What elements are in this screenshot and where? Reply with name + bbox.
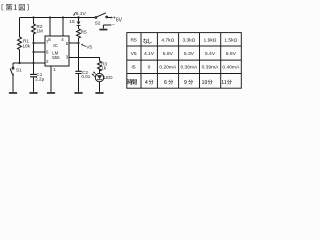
svg-text:R5: R5	[130, 37, 137, 43]
resistor R2	[32, 24, 36, 34]
table cell 11min	[222, 80, 224, 84]
wire pin8	[49, 18, 51, 37]
svg-text:5.3V: 5.3V	[184, 51, 195, 57]
ground battery	[99, 29, 107, 31]
ground LED	[95, 92, 103, 94]
svg-text:0.39mA: 0.39mA	[202, 64, 220, 70]
svg-text:IC: IC	[53, 43, 58, 49]
svg-text:5.5V: 5.5V	[226, 51, 237, 57]
IC U1 (LM555 timer)	[45, 36, 69, 66]
svg-text:4.1V: 4.1V	[144, 51, 155, 57]
wire C1 branch	[33, 63, 35, 92]
svg-text:0: 0	[148, 64, 151, 70]
node dot V5	[77, 42, 79, 44]
wire pin3 to R3	[69, 58, 100, 62]
switch S2	[95, 17, 97, 19]
table cell jikan	[127, 79, 133, 85]
LED triangle and bar	[97, 75, 102, 80]
capacitor C2	[75, 71, 81, 73]
wire pin1 to ground	[50, 66, 52, 92]
svg-text:555: 555	[52, 55, 60, 60]
wire pin5	[69, 42, 79, 44]
wire left vertical R1 branch	[19, 18, 21, 64]
svg-text:1.5kΩ: 1.5kΩ	[224, 37, 237, 43]
svg-text:5.4V: 5.4V	[205, 51, 216, 57]
svg-text:6V: 6V	[116, 18, 123, 24]
wire R2 vertical	[33, 18, 35, 64]
wire pin4	[62, 18, 64, 37]
table grid	[127, 33, 242, 89]
ground pin1	[47, 92, 55, 94]
resistor R5	[77, 29, 81, 38]
svg-text:V5: V5	[86, 44, 92, 49]
arrow 6.1V leader	[73, 12, 76, 16]
svg-text:6.1V: 6.1V	[76, 11, 87, 17]
wire battery minus	[103, 25, 111, 29]
svg-text:S1: S1	[16, 67, 22, 72]
resistor R3	[98, 61, 102, 71]
node dot pin6	[32, 51, 34, 53]
svg-text:R5: R5	[81, 30, 87, 35]
svg-text:LED: LED	[104, 75, 114, 80]
wire bottom (pin2)	[13, 62, 45, 64]
svg-text:V5: V5	[131, 51, 137, 57]
svg-text:5.8V: 5.8V	[163, 51, 174, 57]
node dot top pin4	[62, 16, 64, 18]
node dot 6.1V	[77, 16, 79, 18]
node dot R1 bottom	[18, 62, 20, 64]
wire LED to ground	[99, 82, 101, 92]
wire right branch 6.1V node	[78, 18, 80, 72]
table text	[130, 37, 239, 70]
label figure title	[2, 4, 29, 11]
table cell 9min	[184, 80, 186, 84]
svg-text:3.3kΩ: 3.3kΩ	[182, 37, 195, 43]
wire pin6	[34, 51, 46, 53]
node dot C1 top	[32, 62, 34, 64]
arrow battery plus	[111, 17, 114, 19]
resistor R1	[18, 37, 22, 50]
wire C2 to ground	[78, 74, 80, 92]
LED light arrows	[92, 72, 97, 77]
svg-text:1M: 1M	[37, 29, 44, 34]
diode 1S	[77, 22, 81, 26]
svg-text:I5: I5	[132, 64, 136, 70]
svg-text:2.2µ: 2.2µ	[35, 77, 44, 82]
svg-text:0.01: 0.01	[81, 74, 90, 79]
svg-text:4.7kΩ: 4.7kΩ	[161, 37, 174, 43]
capacitor C1	[30, 74, 37, 76]
node dot top R2	[32, 16, 34, 18]
switch S1 lower contact	[12, 74, 14, 76]
ground C1	[29, 92, 37, 94]
arrow V5 leader	[81, 44, 86, 47]
wire S2 to battery plus	[108, 17, 111, 19]
svg-text:1S: 1S	[69, 19, 74, 24]
table cell 6min	[164, 80, 166, 84]
svg-text:1k: 1k	[101, 65, 107, 70]
wire S1 branch	[12, 63, 14, 92]
svg-text:0.36mA: 0.36mA	[180, 64, 198, 70]
svg-text:10k: 10k	[23, 43, 31, 48]
table cell nashi	[143, 38, 148, 43]
node dot top pin8	[49, 16, 51, 18]
svg-text:0.40mA: 0.40mA	[222, 64, 240, 70]
table cell 10min	[202, 80, 204, 84]
wire pin7	[34, 42, 46, 44]
svg-text:1.9kΩ: 1.9kΩ	[204, 37, 217, 43]
switch S1	[12, 67, 14, 69]
ground S1	[9, 92, 17, 94]
svg-text:S2: S2	[95, 20, 101, 25]
wire R3 to LED	[99, 69, 101, 73]
svg-text:−: −	[112, 22, 115, 28]
table cell 4min	[145, 80, 148, 84]
LED circle	[95, 73, 103, 81]
ground C2	[74, 92, 82, 94]
svg-text:0.20mA: 0.20mA	[159, 64, 177, 70]
wire top rail	[20, 17, 96, 19]
node dot pin7	[32, 42, 34, 44]
